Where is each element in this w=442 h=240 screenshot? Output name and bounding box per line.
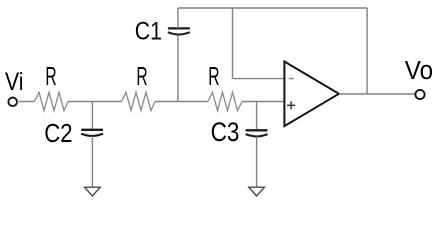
wire op-amp output to Vo terminal <box>339 93 415 95</box>
wire to op-amp inverting input <box>233 78 285 80</box>
svg-text:Vo: Vo <box>405 56 433 85</box>
wire R3 to op-amp non-inverting input (node C) <box>242 101 284 103</box>
wire R2 to R3 (node B) <box>155 101 208 103</box>
svg-text:R: R <box>136 62 147 91</box>
wire node A down to C2 <box>91 102 93 129</box>
op-amp U1 <box>284 62 339 127</box>
wire top feedback rail <box>178 7 367 9</box>
svg-text:R: R <box>208 62 219 91</box>
wire from top rail down to inverting input <box>232 8 234 79</box>
node Vi terminal <box>8 98 17 107</box>
wire R1 to R2 (node A) <box>68 101 122 103</box>
svg-text:C1: C1 <box>135 17 162 45</box>
svg-text:C3: C3 <box>211 118 240 147</box>
node Vo terminal <box>415 90 424 99</box>
capacitor C2 <box>81 130 103 136</box>
svg-text:C2: C2 <box>44 119 72 148</box>
op-amp U1 non-inverting pin marker + <box>287 101 295 109</box>
svg-text:Vi: Vi <box>5 68 24 96</box>
resistor R3 <box>208 92 242 110</box>
resistor R2 <box>122 92 156 110</box>
wire node C down to C3 <box>256 102 258 130</box>
ground (C3) <box>248 187 266 196</box>
resistor R1 <box>35 92 69 110</box>
wire feedback from output node up to top rail <box>366 8 368 94</box>
wire C2 to ground <box>91 136 93 187</box>
capacitor C3 <box>246 130 268 136</box>
wire C1 up to top feedback rail <box>177 8 179 28</box>
op-amp U1 inverting pin marker - <box>289 78 294 80</box>
wire C3 to ground <box>256 137 258 188</box>
svg-text:R: R <box>45 62 56 91</box>
wire Vi to R1 <box>17 101 35 103</box>
ground (C2) <box>84 187 102 196</box>
capacitor C1 <box>168 28 190 34</box>
wire node B up to C1 <box>177 35 179 102</box>
